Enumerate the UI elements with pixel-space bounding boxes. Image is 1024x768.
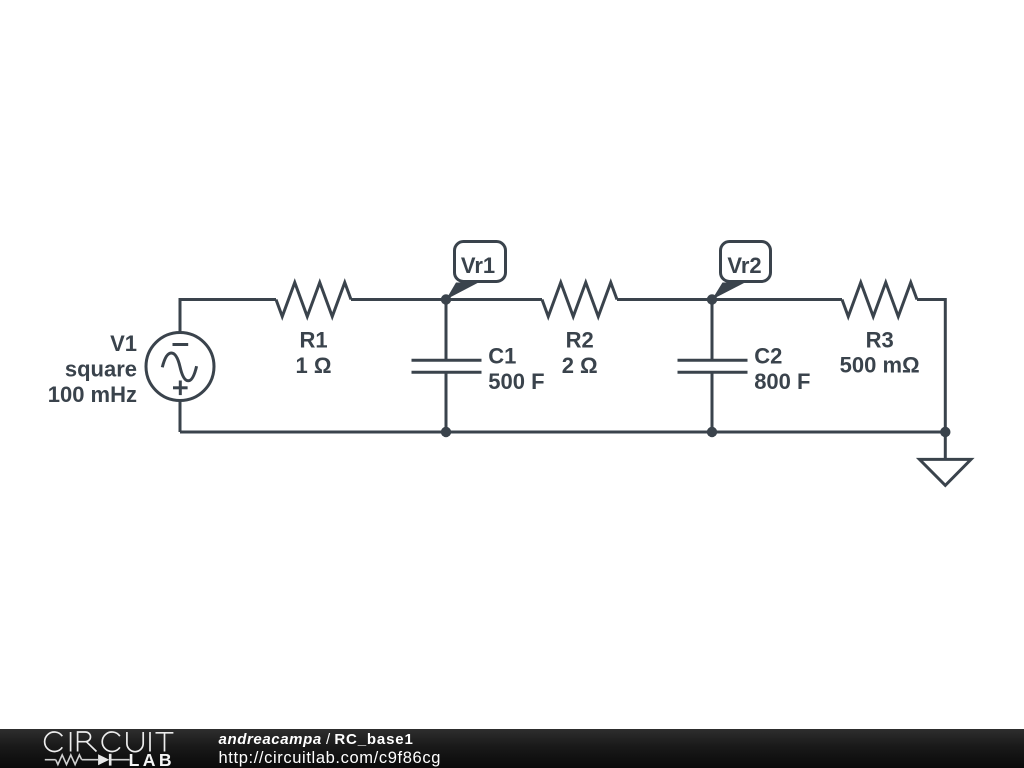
voltage source V1 circle: [146, 333, 214, 401]
net flag Vr1 pointer: [446, 283, 479, 300]
logo letter R: [78, 732, 97, 752]
V1 plus sign: [173, 386, 188, 389]
wire R1 to node A: [351, 298, 446, 301]
svg-text:V1: V1: [110, 331, 137, 356]
logo letter C2: [102, 732, 120, 752]
logo letter I: [70, 732, 72, 752]
svg-text:1 Ω: 1 Ω: [296, 353, 332, 378]
svg-text:500 F: 500 F: [488, 369, 544, 394]
svg-text:Vr1: Vr1: [461, 253, 495, 278]
svg-text:C1: C1: [488, 343, 516, 368]
logo resistor + diode line: [45, 755, 130, 765]
capacitor C2 branch wire bottom: [711, 372, 714, 432]
node A dot: [441, 294, 451, 304]
svg-text:C2: C2: [754, 343, 782, 368]
capacitor C1 plates: [412, 359, 482, 362]
capacitor C2 branch wire top: [711, 300, 714, 361]
capacitor C2 plates: [678, 359, 748, 362]
wire top rail left: [179, 401, 182, 433]
logo letter C: [45, 732, 63, 752]
logo letter T: [156, 733, 174, 752]
node dot C1 bottom: [441, 427, 451, 437]
logo diode bar: [109, 754, 112, 766]
svg-text:800 F: 800 F: [754, 369, 810, 394]
capacitor C1 branch wire top: [445, 300, 448, 361]
svg-text:andreacampa / RC_base1: andreacampa / RC_base1: [219, 731, 414, 748]
svg-text:Vr2: Vr2: [727, 253, 761, 278]
net flag Vr2 pointer: [712, 283, 745, 300]
logo resistor zigzag: [56, 755, 82, 765]
resistor R2: [542, 283, 617, 317]
resistor R1: [276, 283, 351, 317]
ground symbol: [920, 459, 972, 485]
logo CIRCUIT letters: [45, 732, 174, 752]
svg-text:LAB: LAB: [129, 750, 175, 768]
node B dot: [707, 294, 717, 304]
svg-text:100 mHz: 100 mHz: [48, 382, 137, 407]
logo letter I2: [149, 732, 151, 752]
svg-text:2 Ω: 2 Ω: [562, 353, 598, 378]
svg-text:http://circuitlab.com/c9f86cg: http://circuitlab.com/c9f86cg: [219, 749, 442, 767]
logo letter U: [127, 732, 143, 752]
V1 minus sign: [173, 343, 189, 346]
logo wire mid: [82, 759, 98, 761]
net flag Vr1 box: [455, 242, 506, 282]
svg-text:R2: R2: [566, 328, 594, 353]
V1 sine wave: [162, 353, 196, 381]
svg-text:square: square: [65, 356, 137, 381]
svg-text:500 mΩ: 500 mΩ: [840, 353, 920, 378]
ground wire: [944, 432, 947, 459]
resistor R3: [842, 283, 917, 317]
wire from source top: [180, 300, 276, 333]
logo wire left: [45, 759, 56, 761]
node dot ground: [940, 427, 950, 437]
capacitor C1 branch wire bottom: [445, 372, 448, 432]
wire R3 to right corner: [917, 300, 945, 433]
wire node A to R2: [446, 298, 542, 301]
node dot C2 bottom: [707, 427, 717, 437]
wire bottom rail: [180, 431, 945, 434]
svg-text:R3: R3: [866, 328, 894, 353]
net flag Vr2 box: [721, 242, 771, 282]
svg-text:R1: R1: [299, 328, 327, 353]
wire R2 to node B: [617, 298, 712, 301]
logo wire right: [110, 759, 130, 761]
wire node B to R3: [712, 298, 842, 301]
logo diode triangle: [98, 754, 109, 765]
